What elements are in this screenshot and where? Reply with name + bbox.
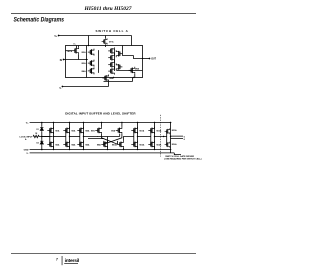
transistor M6d mirrored	[116, 63, 122, 70]
wire Q7 drain	[101, 123, 103, 127]
wire gate c11	[133, 130, 135, 144]
svg-text:M6A: M6A	[86, 143, 90, 146]
terminal V+ node	[58, 35, 60, 37]
wire top inner	[105, 44, 107, 47]
transistor M2	[88, 49, 94, 56]
wire gate c3	[79, 130, 81, 144]
wire IN into box	[64, 59, 88, 61]
junction driver out	[170, 136, 171, 137]
wire stage link 2	[54, 136, 66, 138]
junction c11 mid	[137, 136, 138, 137]
footer rule	[11, 252, 196, 255]
junction c11 bottom	[137, 149, 138, 150]
junction c13 mid	[154, 136, 155, 137]
svg-text:(ONE REQUIRED PER SWITCH CELL): (ONE REQUIRED PER SWITCH CELL)	[164, 159, 201, 161]
wire column c11 vertical	[137, 123, 139, 150]
svg-text:M3A: M3A	[82, 62, 87, 65]
wire V+ drop to box	[131, 36, 133, 46]
transistor M5b	[108, 54, 114, 61]
wire V+ drop to M2 column	[88, 36, 90, 46]
svg-text:M11A: M11A	[140, 129, 145, 132]
svg-text:M1 A: M1 A	[68, 50, 73, 53]
internal bus vertical	[86, 46, 88, 78]
junction c1 mid	[53, 136, 54, 137]
wire inner h3	[117, 70, 143, 72]
wire gate c2	[65, 130, 67, 144]
transistor Q1	[47, 127, 53, 134]
junction box bottom b	[133, 77, 134, 78]
wire column c13 vertical	[154, 123, 156, 150]
junction input	[41, 136, 42, 137]
transistor M5	[108, 47, 114, 54]
junction c11 top	[137, 122, 138, 123]
junction c13 top	[154, 122, 155, 123]
wire column c3 vertical	[83, 123, 85, 150]
wire M1 source down	[78, 54, 80, 59]
wire gate bias lead	[76, 46, 78, 49]
wire driver rail column	[170, 123, 172, 153]
junction c3 mid	[83, 136, 84, 137]
junction c3 bottom	[83, 149, 84, 150]
svg-text:M13A: M13A	[157, 129, 162, 132]
wire Q9 drain	[121, 123, 123, 127]
transistor Q3	[63, 127, 69, 134]
transistor M8	[129, 67, 135, 74]
svg-text:7: 7	[56, 258, 58, 262]
dashed boundary line	[160, 115, 162, 157]
diode D2	[40, 140, 43, 146]
terminal OUT node	[149, 58, 151, 60]
transistor Q12	[131, 141, 137, 148]
resistor R1	[33, 135, 39, 137]
svg-text:LOGIC INPUT: LOGIC INPUT	[20, 137, 34, 139]
svg-text:M7 A: M7 A	[109, 41, 114, 44]
wire inner h2	[134, 56, 143, 59]
transistor M3	[88, 60, 94, 67]
cell boundary box	[66, 46, 143, 78]
svg-text:Schematic Diagrams: Schematic Diagrams	[13, 17, 64, 24]
wire link c6-c7	[138, 136, 164, 138]
wire cross couple B	[104, 134, 122, 144]
junction Q9	[121, 122, 122, 123]
junction Q10	[123, 149, 124, 150]
svg-text:D1: D1	[36, 129, 38, 131]
transistor M4	[88, 67, 94, 74]
junction Q8	[107, 149, 108, 150]
wire inner h1	[123, 46, 134, 56]
wire M1 gate feed	[66, 50, 73, 52]
transistor Q16	[165, 142, 170, 148]
footer logo underline	[64, 262, 78, 265]
svg-text:M3A: M3A	[72, 129, 76, 132]
svg-text:M4A: M4A	[72, 143, 76, 146]
svg-text:IN: IN	[60, 60, 63, 62]
junction diode top	[41, 122, 43, 124]
junction c2 bottom	[69, 149, 70, 150]
rail V+	[30, 122, 172, 124]
junction box bottom a	[113, 77, 114, 78]
svg-text:V-: V-	[26, 153, 28, 155]
svg-text:M8A: M8A	[135, 68, 140, 71]
svg-text:M14A: M14A	[157, 143, 162, 146]
svg-text:M7A: M7A	[91, 129, 95, 132]
wire input to node	[39, 136, 52, 138]
transistor Q4	[63, 141, 69, 148]
transistor Q11	[131, 127, 137, 134]
transistor M6b	[108, 68, 114, 75]
junction driver gate	[163, 136, 164, 137]
transistor Q15	[165, 128, 170, 134]
transistor Q5	[77, 127, 83, 134]
terminal IN node	[63, 59, 65, 61]
wire gate c13	[150, 130, 152, 144]
transistor M9	[102, 75, 108, 82]
svg-text:V+: V+	[54, 36, 58, 38]
wire shifter outputs	[97, 134, 134, 148]
wire level shifter feed	[84, 137, 104, 139]
wire column c1 vertical	[53, 123, 55, 150]
svg-text:G: G	[184, 139, 186, 141]
transistor Q8	[101, 141, 107, 148]
svg-text:M15A: M15A	[172, 129, 177, 132]
rail GND	[30, 149, 172, 151]
wire drop to M7	[105, 36, 107, 39]
svg-text:1K: 1K	[35, 133, 38, 135]
rail V-	[30, 153, 181, 155]
svg-text:M2A: M2A	[56, 143, 60, 146]
wire stage link 3	[70, 136, 80, 138]
transistor Q7	[95, 127, 101, 134]
junction box top a	[88, 45, 89, 46]
transistor Q13	[148, 127, 154, 134]
transistor Q14	[148, 141, 154, 148]
wire M1 drain up	[78, 46, 80, 48]
junction Q7	[101, 122, 102, 123]
wire column c2 vertical	[69, 123, 71, 150]
transistor Q6	[77, 141, 83, 148]
wire cross couple A	[102, 134, 118, 144]
junction out	[142, 58, 143, 59]
wire Q8 source	[107, 148, 109, 150]
wire bottom	[62, 82, 108, 87]
svg-text:M5A: M5A	[86, 129, 90, 132]
svg-text:A: A	[25, 138, 27, 141]
svg-text:M12A: M12A	[140, 143, 145, 146]
diode D1	[40, 126, 43, 132]
terminal VSS node	[62, 86, 64, 88]
wire right column bus	[98, 50, 100, 73]
svg-text:M1A: M1A	[56, 129, 60, 132]
svg-text:D2: D2	[36, 143, 38, 145]
svg-text:HI5011 thru HI5027: HI5011 thru HI5027	[83, 6, 131, 12]
svg-text:M8A: M8A	[97, 143, 101, 146]
wire OUT	[143, 58, 150, 60]
junction	[86, 59, 87, 60]
wire Q10 source	[123, 148, 125, 150]
svg-text:GND: GND	[24, 149, 29, 151]
svg-text:M4A: M4A	[82, 70, 87, 73]
junction c3 top	[83, 122, 84, 123]
svg-text:M2A: M2A	[82, 51, 87, 54]
wire node vertical	[41, 123, 43, 150]
svg-text:V-: V-	[59, 88, 61, 90]
transistor Q2	[47, 141, 53, 148]
junction c2 top	[69, 122, 70, 123]
junction c1 top	[53, 122, 54, 123]
svg-text:M9A: M9A	[111, 129, 115, 132]
junction diode bottom	[41, 149, 43, 151]
junction c2 mid	[69, 136, 70, 137]
transistor M7	[102, 38, 107, 44]
svg-text:V+: V+	[26, 122, 29, 124]
svg-text:SWITCH CELL GATE DRIVER: SWITCH CELL GATE DRIVER	[165, 155, 194, 158]
svg-text:OUT: OUT	[151, 59, 156, 61]
junction c13 bottom	[154, 149, 155, 150]
wire gate c1	[49, 130, 51, 144]
wire M8 down	[134, 74, 136, 78]
svg-text:SWITCH CELL A: SWITCH CELL A	[95, 29, 128, 33]
wire mid column bus	[114, 49, 116, 71]
svg-text:DIGITAL INPUT BUFFER AND LEVEL: DIGITAL INPUT BUFFER AND LEVEL SHIFTER	[65, 112, 136, 116]
wire below box	[104, 78, 133, 82]
transistor M1	[72, 47, 78, 54]
footer divider bar	[61, 256, 64, 265]
transistor Q10	[117, 141, 123, 148]
svg-text:M16A: M16A	[172, 143, 177, 146]
transistor Q9	[116, 127, 122, 134]
transistor M6c mirrored	[116, 50, 122, 57]
wire output stubs	[171, 136, 184, 138]
junction c1 bottom	[53, 149, 54, 150]
wire stage link 1	[42, 136, 50, 138]
transistor M6	[108, 61, 114, 68]
wire driver gates	[164, 131, 167, 144]
wire V+ rail top	[59, 35, 132, 37]
header rule	[11, 12, 196, 15]
junction driver top	[170, 122, 171, 123]
